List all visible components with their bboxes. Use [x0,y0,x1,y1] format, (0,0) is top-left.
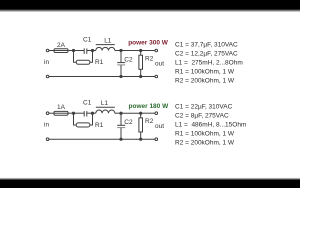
resistor R1 (bottom circuit) [76,123,90,127]
wire node C2n to node D2 [121,112,141,114]
svg-text:R1 = 100kOhm, 1 W: R1 = 100kOhm, 1 W [175,69,235,76]
svg-text:C1: C1 [83,37,92,44]
svg-text:in: in [44,122,49,129]
resistor R1 [76,60,90,64]
svg-text:L1 = 275mH, 2...8Ohm: L1 = 275mH, 2...8Ohm [175,60,243,67]
junction node B [91,49,93,51]
top letterbox bar [0,0,300,9]
svg-text:C2: C2 [124,56,133,63]
svg-text:C1 = 22µF, 310VAC: C1 = 22µF, 310VAC [175,104,233,111]
capacitor C1 [84,48,87,53]
svg-text:R2 = 200kOhm, 1 W: R2 = 200kOhm, 1 W [175,78,235,85]
svg-text:power 180 W: power 180 W [129,103,170,110]
svg-text:R1: R1 [95,122,104,129]
svg-text:C2 = 12,2µF, 275VAC: C2 = 12,2µF, 275VAC [175,51,238,58]
svg-text:2A: 2A [57,42,66,49]
terminal in+ (bottom circuit top left) [46,112,49,115]
inductor L1 (bottom circuit) [96,107,115,113]
junction node E [120,75,122,77]
junction node A [72,49,74,51]
junction node C2n [120,112,122,114]
svg-text:C2 = 8µF, 275VAC: C2 = 8µF, 275VAC [175,113,229,120]
capacitor C2 [117,63,125,65]
svg-text:C1 = 37,7µF, 310VAC: C1 = 37,7µF, 310VAC [175,42,238,49]
junction node B2 [91,112,93,114]
svg-text:L1 = 486mH, 8...15Ohm: L1 = 486mH, 8...15Ohm [175,122,246,129]
wire node C to node D [121,50,141,52]
junction node E2 [120,138,122,140]
terminal out- (bottom circuit) [155,138,158,141]
junction node D [140,49,142,51]
capacitor C2 (bottom circuit) [117,125,125,127]
wire node B2 to L1 [93,112,96,114]
wire C2 down to node E2 [120,128,122,139]
wire node D2 down to R2 [140,113,142,118]
svg-text:R1: R1 [95,59,104,66]
wire node A down to R1 [74,51,77,63]
wire node D down to R2 [140,51,142,56]
wire L1 to node C2n [115,112,121,114]
svg-text:R2: R2 [145,118,154,125]
svg-text:R2: R2 [145,55,154,62]
wire bottom rail (bottom circuit) [49,138,155,140]
svg-text:L1: L1 [104,37,112,44]
wire node D2 to out+ [141,112,155,114]
wire R1 up to node B [90,51,93,63]
wire node C2n down to C2 [120,113,122,125]
wire R2 down to node F [140,69,142,76]
terminal in- (bottom circuit) [46,138,49,141]
junction node C [120,49,122,51]
wire fuse to node A [68,50,74,52]
wire node B to L1 [93,50,96,52]
wire L1 to node C [115,50,121,52]
wire in+ to fuse [49,112,54,114]
wire C1 to node B2 [87,112,93,114]
fuse F1 2A [54,49,68,53]
svg-text:C1: C1 [83,99,92,106]
wire node D to out+ [141,50,155,52]
wire in+ to fuse [49,50,54,52]
wire node A2 down to R1 [74,113,77,125]
wire node A2 to C1 [74,112,85,114]
svg-text:out: out [155,123,164,130]
capacitor C1 (bottom circuit) [84,111,87,116]
svg-text:out: out [155,60,164,67]
svg-text:R1 = 100kOhm, 1 W: R1 = 100kOhm, 1 W [175,131,235,138]
svg-text:C2: C2 [124,119,133,126]
wire C1 to node B [87,50,93,52]
wire bottom rail [49,76,155,78]
terminal in+ (top left) [46,49,49,52]
wire R2 down to node F2 [140,132,142,139]
svg-text:R2 = 200kOhm, 1 W: R2 = 200kOhm, 1 W [175,140,235,147]
wire fuse to node A2 [68,112,74,114]
bottom letterbox bar [0,178,300,181]
wire R1 up to node B2 [90,113,93,125]
inductor L1 [96,45,115,51]
terminal out+ (top right) [155,49,158,52]
fuse F2 1A [54,111,68,115]
terminal out- (bottom right) [155,75,158,78]
junction node F [140,75,142,77]
wire node C down to C2 [120,51,122,63]
junction node F2 [140,138,142,140]
terminal out+ (bottom circuit) [155,112,158,115]
svg-text:1A: 1A [57,104,66,111]
wire node A to C1 [74,50,85,52]
wire C2 down to node E [120,65,122,76]
svg-text:L1: L1 [101,100,109,107]
terminal in- (bottom left) [46,75,49,78]
svg-text:power 300 W: power 300 W [128,40,169,47]
svg-text:in: in [44,59,49,66]
junction node D2 [140,112,142,114]
junction node A2 [72,112,74,114]
resistor R2 (bottom circuit) [139,118,143,132]
resistor R2 [139,55,143,69]
